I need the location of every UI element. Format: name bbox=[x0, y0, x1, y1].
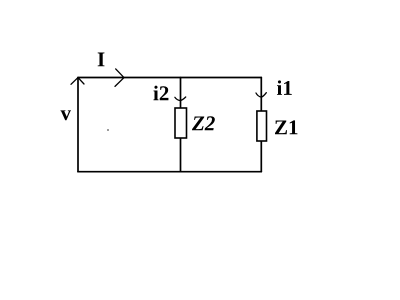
arrowhead current i2 down bbox=[175, 97, 186, 101]
wire left bbox=[77, 78, 79, 172]
label i1 bbox=[277, 80, 292, 95]
wire right branch upper bbox=[260, 78, 262, 112]
arrowhead current i1 down bbox=[256, 93, 266, 98]
arrowhead current I right bbox=[115, 69, 124, 87]
impedance Z2 box bbox=[175, 108, 187, 138]
wire middle branch upper bbox=[180, 78, 182, 109]
wire middle branch lower bbox=[180, 138, 182, 172]
arrowhead v source up bbox=[71, 78, 84, 85]
impedance Z1 box bbox=[257, 111, 267, 141]
wire right branch lower bbox=[260, 141, 262, 172]
stray ink dot bbox=[107, 129, 109, 131]
label Z1 bbox=[275, 120, 297, 134]
wire bottom bbox=[78, 171, 261, 173]
label i2 bbox=[153, 86, 168, 101]
label Z2 bbox=[192, 116, 215, 130]
wire top bbox=[78, 77, 261, 79]
label I bbox=[98, 53, 105, 67]
label v bbox=[61, 110, 72, 120]
